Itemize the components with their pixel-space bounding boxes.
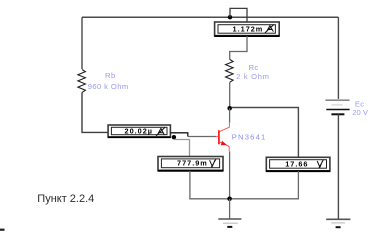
wire base ammeter to transistor base — [170, 133, 187, 137]
svg-text:Пункт 2.2.4: Пункт 2.2.4 — [37, 193, 94, 205]
wire battery top — [337, 17, 339, 99]
wire collector node to voltmeter 17.66 — [232, 108, 299, 158]
wire collector ammeter to Rc — [230, 36, 247, 59]
svg-text:1.172m: 1.172m — [233, 25, 264, 34]
svg-text:Rc: Rc — [249, 63, 259, 72]
ground fragment left edge — [0, 229, 5, 231]
ground middle — [218, 219, 241, 227]
node emitter ground junction dot — [227, 197, 232, 202]
svg-text:Ec: Ec — [355, 99, 364, 108]
wire base segment — [188, 136, 216, 138]
svg-text:960 k Ohm: 960 k Ohm — [88, 82, 129, 91]
battery Ec — [325, 100, 349, 114]
wire voltmeter 777.9m bottom to ground node — [190, 171, 228, 199]
node collector junction dot — [227, 106, 232, 111]
transistor Q1 PN3641 — [216, 122, 230, 151]
wire collector stub — [229, 108, 231, 122]
svg-text:17.66: 17.66 — [285, 160, 308, 169]
svg-text:PN3641: PN3641 — [232, 133, 267, 142]
wire base node to voltmeter 777.9m — [174, 140, 190, 157]
wire voltmeter 17.66 bottom to ground node — [232, 171, 299, 199]
ammeter M1 1.172mA — [214, 22, 279, 36]
svg-text:Rb: Rb — [105, 71, 116, 80]
svg-text:2 k Ohm: 2 k Ohm — [236, 72, 269, 81]
wire loop over collector ammeter — [230, 8, 247, 22]
wire Rb bottom to base ammeter — [82, 92, 108, 132]
wire ground stub — [229, 199, 231, 219]
voltmeter M3 777.9mV — [158, 157, 224, 171]
wire battery bottom to ground — [337, 114, 339, 219]
svg-text:777.9m: 777.9m — [177, 159, 208, 168]
svg-text:20.02µ: 20.02µ — [125, 126, 153, 135]
wire Rc bottom to collector node — [229, 82, 231, 106]
resistor Rc — [226, 59, 234, 82]
svg-text:20 V: 20 V — [352, 108, 369, 117]
ground right — [326, 219, 350, 227]
wire top horizontal rail — [82, 16, 338, 18]
node junction dot top rail — [228, 15, 232, 19]
voltmeter M4 17.66V — [266, 157, 330, 171]
wire emitter down to ground node — [229, 152, 231, 198]
ammeter M2 20.02uA — [108, 125, 171, 137]
wire left vertical from top rail to Rb — [81, 17, 83, 69]
node base junction dot — [172, 135, 176, 139]
resistor Rb — [78, 70, 86, 93]
